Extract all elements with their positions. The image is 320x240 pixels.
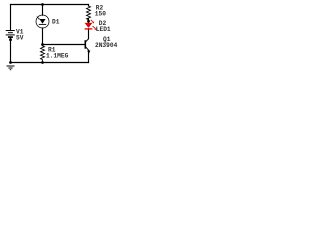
ground (7, 66, 15, 70)
battery V1 (6, 31, 15, 38)
svg-text:D1: D1 (52, 18, 60, 25)
svg-text:5V: 5V (16, 34, 24, 41)
resistor R1 (41, 45, 45, 63)
photodiode D1 (36, 15, 49, 28)
wire top rail (11, 4, 89, 6)
battery pin dot (9, 38, 12, 41)
wire R2 corner drop (88, 5, 90, 7)
svg-text:150: 150 (95, 10, 106, 17)
junction dot top rail (41, 3, 44, 6)
junction dot bottom-left (9, 61, 12, 64)
wire bottom rail (11, 62, 89, 64)
transistor Q1 (85, 39, 90, 54)
wire D1 bottom to node A (42, 28, 44, 45)
resistor R2 (87, 6, 91, 20)
junction dot R1 bottom (41, 61, 44, 64)
svg-text:2N3904: 2N3904 (95, 42, 118, 49)
wire battery bottom to ground rail (10, 37, 12, 62)
wire R2 to LED (88, 19, 90, 23)
node A dot (41, 43, 44, 46)
wire left vertical to battery (10, 5, 12, 31)
wire emitter to bottom rail (88, 50, 90, 62)
junction dot LED top (87, 20, 90, 23)
svg-text:1.1MEG: 1.1MEG (46, 52, 69, 59)
wire LED to collector (88, 29, 90, 39)
wire D1 top drop (42, 5, 44, 16)
LED D2 (85, 20, 97, 30)
wire base lead (43, 44, 85, 46)
svg-text:LED1: LED1 (96, 26, 111, 33)
